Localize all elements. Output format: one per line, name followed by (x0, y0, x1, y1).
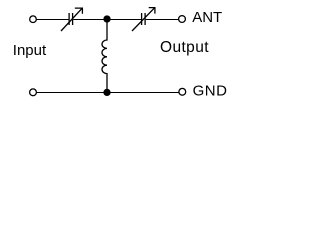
ANT terminal circle (179, 16, 186, 23)
GND terminal circle (179, 88, 186, 95)
svg-text:ANT: ANT (192, 9, 222, 26)
capacitor C1 arrowhead (75, 8, 83, 14)
inductor L1 (102, 22, 107, 91)
input ground terminal circle (30, 89, 37, 96)
input terminal circle (30, 16, 37, 23)
svg-text:Output: Output (160, 39, 209, 56)
capacitor C2 left plate (141, 13, 143, 25)
capacitor C2 right plate (144, 13, 146, 25)
capacitor C1 left plate (68, 13, 70, 25)
node junction dot top (104, 16, 110, 22)
wire C2 to ANT terminal (146, 19, 179, 21)
svg-text:GND: GND (193, 82, 228, 99)
capacitor C1 variable arrow (61, 8, 82, 31)
capacitor C2 variable arrow (132, 8, 155, 31)
wire input to C1 (36, 19, 68, 21)
capacitor C2 arrowhead (149, 8, 155, 14)
node junction dot bottom (104, 89, 110, 95)
wire C1 to top node (73, 19, 107, 21)
bottom wire (37, 92, 179, 94)
capacitor C1 right plate (72, 13, 74, 25)
svg-text:Input: Input (13, 42, 47, 59)
wire node to C2 (107, 19, 141, 21)
